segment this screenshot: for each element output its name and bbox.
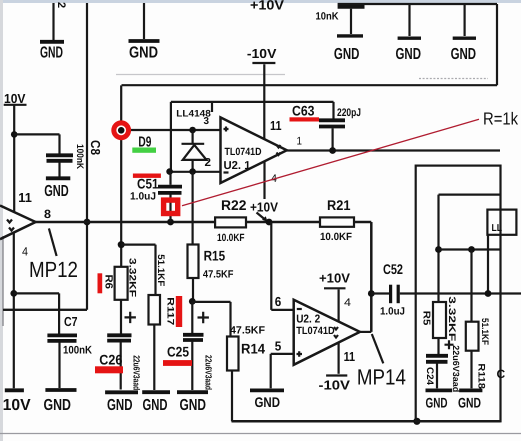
svg-text:GND: GND — [40, 45, 63, 62]
svg-text:3: 3 — [204, 116, 210, 127]
svg-text:11: 11 — [18, 190, 32, 205]
svg-text:C52: C52 — [383, 261, 403, 277]
svg-text:GND: GND — [129, 45, 158, 62]
svg-text:R=1k: R=1k — [483, 109, 518, 129]
svg-text:R6: R6 — [102, 275, 114, 290]
svg-text:100nK: 100nK — [63, 345, 92, 357]
svg-text:4: 4 — [344, 297, 351, 309]
svg-text:GND: GND — [458, 395, 481, 411]
svg-text:-10V: -10V — [247, 46, 277, 61]
svg-text:R117: R117 — [164, 297, 175, 325]
svg-text:TL0741D: TL0741D — [296, 325, 335, 337]
svg-text:10nK: 10nK — [316, 11, 339, 23]
svg-text:GND: GND — [426, 395, 448, 411]
svg-text:+10V: +10V — [250, 0, 284, 13]
svg-text:C51: C51 — [137, 175, 159, 191]
svg-text:GND: GND — [255, 394, 281, 410]
svg-text:GND: GND — [44, 183, 68, 200]
svg-text:R118: R118 — [476, 363, 487, 389]
svg-text:22u6V3aad: 22u6V3aad — [451, 345, 461, 392]
svg-text:100nK: 100nK — [74, 144, 85, 169]
svg-text:51.1KF: 51.1KF — [155, 254, 166, 286]
svg-text:10.0KF: 10.0KF — [320, 231, 353, 243]
svg-text:1.0uJ: 1.0uJ — [130, 191, 156, 203]
svg-text:1: 1 — [297, 136, 303, 148]
svg-text:11: 11 — [344, 349, 356, 364]
svg-text:6: 6 — [275, 294, 282, 309]
svg-text:GND: GND — [44, 397, 72, 414]
svg-text:51.1KF: 51.1KF — [479, 318, 490, 345]
svg-text:+10V: +10V — [319, 271, 350, 286]
svg-text:GND: GND — [107, 397, 133, 414]
svg-text:1.0uJ: 1.0uJ — [380, 305, 405, 317]
svg-text:C8: C8 — [88, 140, 103, 155]
svg-text:5: 5 — [275, 339, 282, 354]
svg-text:R5: R5 — [420, 311, 431, 326]
svg-text:TL0741D: TL0741D — [225, 146, 262, 158]
svg-text:GND: GND — [396, 46, 422, 63]
svg-text:2: 2 — [55, 2, 67, 8]
svg-text:C25: C25 — [167, 343, 189, 359]
svg-text:11: 11 — [270, 118, 282, 133]
svg-text:U2. 1: U2. 1 — [224, 160, 252, 172]
svg-text:22u6V3aad: 22u6V3aad — [131, 355, 141, 390]
svg-text:22u6V3aad: 22u6V3aad — [204, 355, 214, 390]
svg-text:MP14: MP14 — [357, 365, 406, 390]
svg-text:C26: C26 — [99, 351, 122, 367]
svg-text:-10V: -10V — [319, 377, 351, 392]
svg-text:3.32KF: 3.32KF — [126, 258, 137, 297]
svg-text:U2. 2: U2. 2 — [296, 314, 320, 326]
svg-text:MP12: MP12 — [29, 257, 78, 282]
svg-text:3.32KF: 3.32KF — [446, 296, 457, 341]
svg-text:C63: C63 — [292, 102, 315, 118]
svg-text:GND: GND — [334, 46, 360, 63]
svg-text:C24: C24 — [424, 367, 435, 386]
svg-text:47.5KF: 47.5KF — [230, 324, 266, 336]
svg-text:R15: R15 — [204, 247, 226, 263]
svg-text:GND: GND — [180, 397, 207, 414]
svg-text:8: 8 — [44, 207, 51, 221]
svg-text:+10V: +10V — [250, 199, 278, 214]
svg-text:220pJ: 220pJ — [337, 107, 361, 119]
svg-text:C: C — [497, 367, 506, 381]
svg-text:R14: R14 — [241, 340, 265, 356]
svg-text:4: 4 — [22, 245, 28, 259]
svg-text:2: 2 — [205, 157, 212, 169]
svg-text:47.5KF: 47.5KF — [203, 268, 234, 280]
svg-text:LL: LL — [492, 223, 503, 234]
svg-text:C7: C7 — [64, 314, 78, 329]
svg-text:GND: GND — [451, 46, 477, 63]
svg-text:10.0KF: 10.0KF — [217, 232, 245, 244]
svg-text:R21: R21 — [327, 197, 351, 213]
svg-text:10V: 10V — [3, 397, 31, 414]
svg-text:R22: R22 — [221, 197, 247, 213]
svg-text:GND: GND — [143, 397, 168, 414]
